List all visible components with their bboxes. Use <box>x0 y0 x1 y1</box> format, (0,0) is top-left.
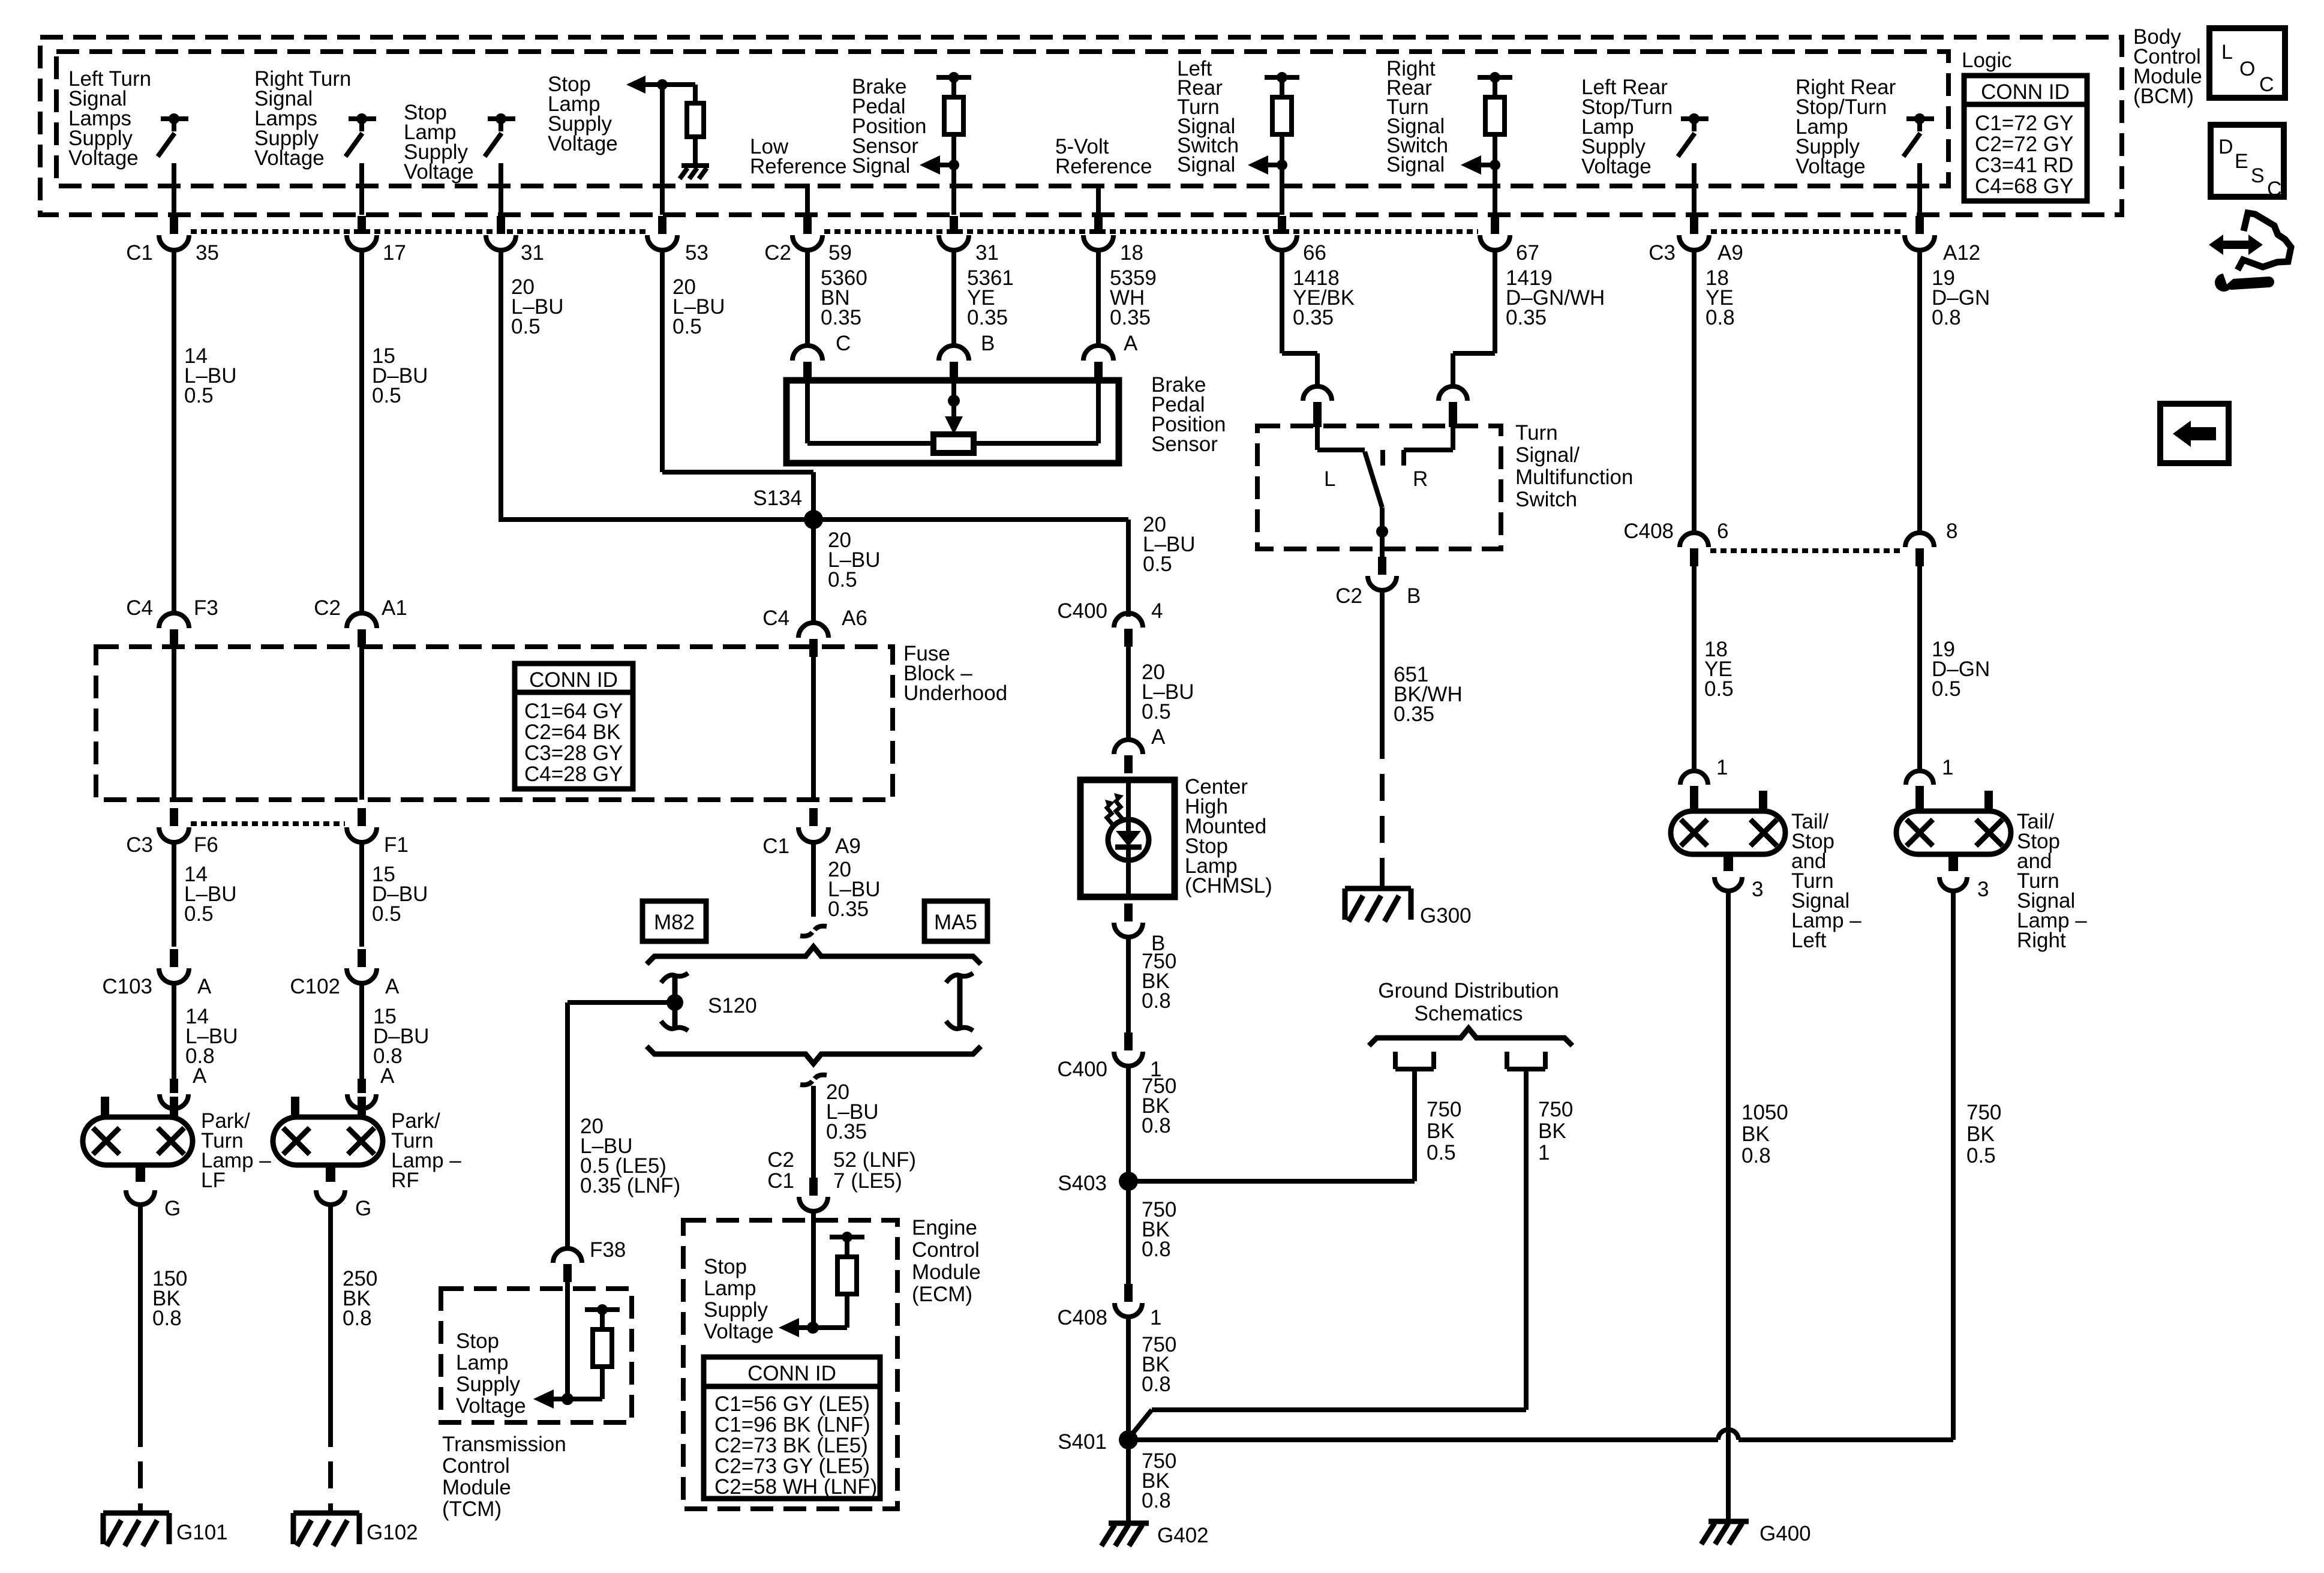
wire pin 31 <box>951 165 956 215</box>
stub to ground distribution (left) <box>1395 1052 1434 1069</box>
label A12 <box>1943 241 1980 265</box>
BCM CONN ID table <box>1964 76 2087 201</box>
svg-text:(ECM): (ECM) <box>912 1283 972 1306</box>
svg-text:31: 31 <box>975 241 999 265</box>
wire low reference <box>805 184 810 215</box>
label 3 <box>1977 878 1989 901</box>
switch (BCM left rear stop/turn driver) <box>1678 113 1709 157</box>
svg-text:1: 1 <box>1150 1306 1161 1329</box>
svg-text:G: G <box>164 1197 181 1220</box>
svg-text:3: 3 <box>1977 878 1989 901</box>
label 8 <box>1946 520 1957 543</box>
connector BCM C3 pin A12 <box>1905 216 1935 250</box>
svg-text:Switch: Switch <box>1515 488 1577 511</box>
svg-text:0.35: 0.35 <box>1506 306 1547 329</box>
connector BCM C1 pin 17 <box>347 216 377 250</box>
label 17 <box>383 241 406 265</box>
wire pin 67 <box>1493 165 1497 215</box>
wire <box>499 163 503 215</box>
wire into ECM <box>811 1209 816 1328</box>
label 1 <box>1942 756 1953 779</box>
svg-text:RF: RF <box>391 1169 419 1192</box>
wire <box>359 163 364 215</box>
svg-text:S120: S120 <box>708 994 757 1017</box>
svg-text:7 (LE5): 7 (LE5) <box>833 1169 902 1193</box>
svg-text:750: 750 <box>1538 1098 1573 1121</box>
svg-text:L: L <box>1324 467 1335 491</box>
splice S134 <box>753 487 823 529</box>
svg-text:A9: A9 <box>835 834 861 858</box>
svg-text:0.5: 0.5 <box>1966 1144 1996 1167</box>
svg-text:0.5: 0.5 <box>1143 553 1172 576</box>
svg-text:Module: Module <box>912 1260 981 1284</box>
svg-text:G: G <box>355 1197 371 1220</box>
wire 20 L-BU 0.5 down to S134 level <box>499 248 503 522</box>
wire 5360 BN 0.35 <box>805 248 810 347</box>
label C408 / 1 <box>1057 1306 1161 1329</box>
svg-text:Voltage: Voltage <box>548 132 618 155</box>
wire 5359 WH 0.35 <box>1096 248 1101 347</box>
svg-text:Left: Left <box>1791 929 1827 952</box>
svg-text:Logic: Logic <box>1962 49 2012 72</box>
label 18 <box>1120 241 1143 265</box>
svg-text:0.35: 0.35 <box>828 897 869 921</box>
label Left Turn Signal Lamps Supply Voltage <box>68 67 151 170</box>
connector tail lamp right pin 3 <box>1939 877 1967 891</box>
connector fuse block C2 pin A1 <box>347 613 377 647</box>
label B <box>1151 932 1165 955</box>
svg-text:0.8: 0.8 <box>152 1307 182 1330</box>
svg-text:A: A <box>193 1064 207 1088</box>
svg-text:C103: C103 <box>102 975 152 998</box>
connector C408 pin 1 <box>1115 1284 1142 1317</box>
svg-text:G102: G102 <box>367 1521 418 1544</box>
svg-text:C3=28 GY: C3=28 GY <box>524 742 623 765</box>
label C4 / F3 <box>126 596 218 620</box>
wire S134 down <box>811 520 816 624</box>
svg-text:C: C <box>2259 73 2274 96</box>
label 15 D-BU 0.5 <box>372 863 428 926</box>
signal arrow (TCM stop lamp supply voltage) <box>533 1389 574 1409</box>
label C1 / A9 <box>762 834 861 858</box>
svg-text:S134: S134 <box>753 487 802 510</box>
connector tail lamp left pin 3 <box>1715 877 1742 891</box>
wire resistor to node <box>951 134 956 165</box>
svg-text:0.5: 0.5 <box>1932 677 1961 701</box>
svg-text:0.35: 0.35 <box>1394 703 1434 726</box>
label Park/Turn Lamp - LF <box>201 1109 271 1192</box>
label C400 / 4 <box>1057 599 1163 623</box>
svg-text:0.5: 0.5 <box>828 568 857 592</box>
switch internal: R contact <box>1404 426 1453 466</box>
wire 5361 YE 0.35 <box>951 248 956 347</box>
LOC legend box <box>2209 28 2285 98</box>
svg-text:C2=58 WH (LNF): C2=58 WH (LNF) <box>714 1475 877 1499</box>
svg-text:0.8: 0.8 <box>1142 989 1171 1013</box>
svg-text:S: S <box>2251 164 2265 187</box>
connector BCM C2 pin 66 <box>1267 216 1297 250</box>
ground G402 <box>1101 1523 1209 1547</box>
svg-text:8: 8 <box>1946 520 1957 543</box>
label 250 BK 0.8 <box>343 1267 377 1330</box>
svg-text:D: D <box>2218 136 2233 158</box>
svg-text:B: B <box>981 332 995 355</box>
wire (inside fuse block) <box>172 646 176 800</box>
wire 14 L-BU 0.5 <box>172 840 176 947</box>
wire into sensor <box>951 379 956 396</box>
wire 15 D-BU 0.5 <box>359 248 364 614</box>
connector C408 pin 6 <box>1680 533 1709 566</box>
wire 18 YE 0.5 <box>1692 565 1697 771</box>
svg-text:Voltage: Voltage <box>1795 155 1866 178</box>
svg-text:A6: A6 <box>842 607 867 630</box>
label 1050 BK 0.8 <box>1742 1101 1788 1167</box>
svg-text:C2: C2 <box>314 596 341 620</box>
wire S134 to C400 branch <box>813 520 1128 617</box>
svg-text:F1: F1 <box>384 833 409 857</box>
svg-text:Ground Distribution: Ground Distribution <box>1378 979 1559 1002</box>
label Stop Lamp Supply Voltage (stop output) <box>404 101 474 184</box>
label 20 L-BU 0.35 <box>828 858 881 921</box>
wire 15 D-BU 0.5 <box>359 840 364 947</box>
svg-text:Stop: Stop <box>456 1329 499 1353</box>
connector fuse block C3 pin F6 <box>159 808 189 842</box>
switch (BCM right rear stop/turn driver) <box>1903 113 1934 157</box>
svg-text:Control: Control <box>912 1238 980 1262</box>
connector lamp RF pin G <box>316 1190 345 1205</box>
svg-text:C102: C102 <box>290 975 340 998</box>
splice S401 <box>1058 1430 1138 1454</box>
svg-text:F3: F3 <box>194 596 218 620</box>
svg-text:Voltage: Voltage <box>254 146 325 170</box>
label Park/Turn Lamp - RF <box>391 1109 461 1192</box>
svg-text:(TCM): (TCM) <box>442 1497 502 1521</box>
wire S401 to right tail lamp ground (with hop) <box>1128 890 1953 1440</box>
wire pin 66 <box>1280 165 1284 215</box>
label Stop Lamp Supply Voltage (ECM) <box>704 1255 774 1343</box>
label 1 <box>1716 756 1728 779</box>
wire pin 53 <box>660 85 665 215</box>
connector fuse block C1 pin A9 <box>798 808 828 842</box>
connector BCM C2 pin 31 <box>939 216 969 250</box>
svg-text:66: 66 <box>1303 241 1326 265</box>
svg-text:C2: C2 <box>767 1148 794 1172</box>
label Body Control Module (BCM) <box>2133 25 2202 108</box>
label 15 D-BU 0.8 A <box>373 1005 429 1088</box>
connector C2 dotted row <box>824 229 1478 234</box>
fuse block connector dotted row <box>191 821 345 826</box>
wire 14 L-BU 0.5 <box>172 248 176 614</box>
svg-text:Multifunction: Multifunction <box>1515 466 1633 489</box>
label 19 D-GN 0.8 <box>1932 266 1990 329</box>
wire 150 BK 0.8 <box>138 1203 143 1447</box>
label 20 L-BU 0.35 <box>826 1080 879 1143</box>
Engine Control Module dashed box <box>683 1220 897 1509</box>
svg-text:S403: S403 <box>1058 1172 1107 1195</box>
svg-text:52 (LNF): 52 (LNF) <box>833 1148 916 1172</box>
lamp Park/Turn Lamp - LF <box>83 1097 193 1182</box>
connector park/turn lamp RF pin A <box>347 1079 376 1109</box>
Turn Signal/Multifunction Switch dashed box <box>1257 426 1501 549</box>
svg-text:0.35: 0.35 <box>1293 306 1334 329</box>
wire into sensor <box>1096 379 1101 443</box>
label C2 / B <box>1335 584 1421 608</box>
svg-text:0.8: 0.8 <box>1742 1144 1771 1167</box>
svg-text:0.35 (LNF): 0.35 (LNF) <box>580 1174 680 1197</box>
connector BCM C2 pin 18 <box>1083 216 1113 250</box>
svg-text:C4: C4 <box>126 596 153 620</box>
connector BCM C2 pin 67 <box>1480 216 1510 250</box>
connector C400 pin 4 <box>1114 613 1143 647</box>
svg-text:G300: G300 <box>1420 904 1472 927</box>
svg-text:1: 1 <box>1538 1141 1550 1164</box>
connector C103 pin A <box>159 949 189 983</box>
wire 750 BK 0.8 <box>1126 936 1131 1038</box>
svg-text:(CHMSL): (CHMSL) <box>1185 874 1272 897</box>
svg-text:C3: C3 <box>1649 241 1676 265</box>
svg-text:0.5: 0.5 <box>511 315 541 338</box>
connector C3 dotted row <box>1711 229 1903 234</box>
label F38 <box>590 1238 626 1262</box>
label 67 <box>1516 241 1539 265</box>
svg-text:17: 17 <box>383 241 406 265</box>
svg-text:0.8: 0.8 <box>1142 1489 1171 1512</box>
ground G400 <box>1701 1521 1811 1545</box>
label A <box>1151 725 1166 749</box>
label Engine Control Module (ECM) <box>912 1216 981 1306</box>
connector tail lamp left pin 1 <box>1680 771 1708 804</box>
BCM inner dashed box (logic) <box>56 52 1948 186</box>
brace (ground distribution) <box>1369 1028 1572 1046</box>
label C103 / A <box>102 975 212 998</box>
ground G300 <box>1345 888 1472 927</box>
svg-text:E: E <box>2235 150 2248 173</box>
callout box M82 <box>642 901 706 941</box>
connector lamp LF pin G <box>126 1190 155 1205</box>
splice S403 <box>1058 1172 1138 1195</box>
svg-text:Engine: Engine <box>912 1216 977 1239</box>
wire 750 BK 1 (S401 to ground distribution) <box>1128 1069 1526 1439</box>
connector TCM pin F38 <box>553 1248 582 1282</box>
connector fuse block pin F1 <box>347 808 377 842</box>
wire 750 BK 0.5 <box>1951 890 1956 1440</box>
svg-text:0.8: 0.8 <box>1142 1114 1171 1137</box>
wire break (bottom of S120 group) <box>800 1075 827 1085</box>
wire <box>805 384 810 443</box>
connector CHMSL pin B <box>1114 903 1143 937</box>
wire 1418 YE/BK 0.35 <box>1282 248 1317 389</box>
connector BCM C2 pin 59 <box>792 216 822 250</box>
svg-text:A1: A1 <box>382 596 407 620</box>
svg-text:Voltage: Voltage <box>404 160 474 184</box>
signal arrow (left rear turn signal switch signal) <box>1248 155 1287 175</box>
Fuse Block - Underhood dashed box <box>96 647 893 800</box>
svg-text:Transmission: Transmission <box>442 1433 566 1456</box>
wire resistor to node <box>813 1294 847 1328</box>
connector C400 pin 1 <box>1114 1032 1143 1066</box>
svg-text:A12: A12 <box>1943 241 1980 265</box>
svg-text:Sensor: Sensor <box>1151 433 1218 456</box>
resistor (TCM internal) <box>585 1304 620 1367</box>
wire 750 BK 0.8 <box>1126 1316 1131 1440</box>
wire resistor to node <box>1280 134 1284 165</box>
label Brake Pedal Position Sensor <box>1151 373 1226 456</box>
connector park/turn lamp LF pin A <box>160 1079 188 1109</box>
svg-text:G400: G400 <box>1759 1522 1811 1545</box>
svg-text:1: 1 <box>1942 756 1953 779</box>
svg-text:Schematics: Schematics <box>1415 1002 1523 1025</box>
label 750 BK 0.8 <box>1142 1198 1176 1261</box>
label Left Rear Stop/Turn Lamp Supply Voltage <box>1581 76 1673 178</box>
label 750 BK 0.8 <box>1142 1333 1176 1396</box>
label 750 BK 1 <box>1538 1098 1573 1164</box>
svg-text:0.5: 0.5 <box>1704 677 1734 701</box>
switch (BCM stop lamp output driver) <box>485 113 515 157</box>
svg-text:0.5: 0.5 <box>1427 1141 1456 1164</box>
connector fuse block C4 pin A6 <box>798 623 828 657</box>
svg-text:Lamp: Lamp <box>456 1351 509 1374</box>
label 651 BK/WH 0.35 <box>1394 663 1463 726</box>
wire (dashed to ground) <box>1380 774 1385 888</box>
svg-text:3: 3 <box>1752 878 1763 901</box>
svg-text:BK: BK <box>1742 1122 1770 1146</box>
wire 20 L-BU 0.35 <box>811 840 816 917</box>
wire to C2/B <box>1380 532 1385 563</box>
resistor (BCM internal pull-down) <box>687 103 704 137</box>
label 1419 D-GN/WH 0.35 <box>1506 266 1605 329</box>
lamp Tail/Stop and Turn Signal Lamp - Left <box>1671 791 1785 871</box>
svg-text:C1: C1 <box>126 241 153 265</box>
label Brake Pedal Position Sensor Signal <box>852 75 927 178</box>
label Right Rear Stop/Turn Lamp Supply Voltage <box>1795 76 1896 178</box>
label 5360 BN 0.35 C <box>821 266 867 355</box>
wire into sensor <box>805 379 810 443</box>
svg-text:C408: C408 <box>1057 1306 1107 1329</box>
wire 20 L-BU 0.5 <box>662 248 813 520</box>
resistor (BCM internal, BPPS signal) <box>936 72 971 134</box>
label 750 BK 0.5 <box>1427 1098 1461 1164</box>
svg-text:L: L <box>2221 41 2233 64</box>
sensor internal: wiper contact <box>933 434 974 453</box>
svg-text:B: B <box>1407 584 1421 608</box>
label C2 / 59 <box>764 241 852 265</box>
svg-text:6: 6 <box>1717 520 1728 543</box>
connector turn signal switch (right input) <box>1439 386 1467 427</box>
label 18 YE 0.8 <box>1706 266 1735 329</box>
svg-text:C1=56 GY (LE5): C1=56 GY (LE5) <box>714 1392 870 1416</box>
label Fuse Block - Underhood <box>903 642 1007 705</box>
svg-text:67: 67 <box>1516 241 1539 265</box>
svg-text:C400: C400 <box>1057 599 1107 623</box>
svg-text:Signal: Signal <box>1386 153 1445 176</box>
label 20 L-BU 0.5 (LE5) 0.35 (LNF) <box>580 1115 680 1197</box>
label Tail/Stop and Turn Signal Lamp - Left <box>1791 810 1861 952</box>
svg-text:C2=73 GY (LE5): C2=73 GY (LE5) <box>714 1455 870 1478</box>
svg-text:18: 18 <box>1120 241 1143 265</box>
switch (BCM right turn output driver) <box>346 113 376 157</box>
wire (inside fuse block) <box>359 646 364 800</box>
connector ECM C2/C1 <box>799 1178 828 1211</box>
label 14 L-BU 0.5 <box>184 863 237 926</box>
svg-text:C3=41 RD: C3=41 RD <box>1975 154 2073 177</box>
label 53 <box>685 241 708 265</box>
connector C408 dotted row <box>1710 548 1903 553</box>
label Low Reference <box>750 135 846 178</box>
label 15 D-BU 0.5 <box>372 344 428 407</box>
svg-text:CONN ID: CONN ID <box>1981 80 2070 104</box>
ECM CONN ID table <box>704 1357 880 1499</box>
label Stop Lamp Supply Voltage (TCM) <box>456 1329 526 1418</box>
connector CHMSL pin A <box>1114 740 1143 773</box>
label 5359 WH 0.35 A <box>1110 266 1157 355</box>
svg-text:0.8: 0.8 <box>343 1307 372 1330</box>
label C1 / 35 <box>126 241 219 265</box>
sensor internal: wiper arrow <box>945 380 963 434</box>
svg-text:0.5: 0.5 <box>184 902 214 926</box>
label C3 / F6 <box>126 833 218 857</box>
svg-text:Underhood: Underhood <box>903 682 1007 705</box>
svg-text:C4: C4 <box>762 607 789 630</box>
svg-text:1: 1 <box>1716 756 1728 779</box>
connector BCM C3 pin A9 <box>1679 216 1709 250</box>
wire <box>1917 163 1922 215</box>
label 150 BK 0.8 <box>152 1267 187 1330</box>
svg-text:F38: F38 <box>590 1238 626 1262</box>
svg-text:R: R <box>1413 467 1428 491</box>
svg-text:Voltage: Voltage <box>456 1394 526 1418</box>
brace (bottom of splice pack) <box>647 1046 981 1064</box>
wire 250 BK 0.8 <box>328 1203 333 1447</box>
svg-text:750: 750 <box>1427 1098 1461 1121</box>
wire 20 L-BU 0.35 to ECM <box>811 1086 816 1184</box>
wire resistor to ground <box>693 138 698 166</box>
wire 19 D-GN 0.8 <box>1917 248 1922 534</box>
svg-text:A: A <box>1124 332 1138 355</box>
label G <box>355 1197 371 1220</box>
wire 20 L-BU 0.5 <box>1126 646 1131 741</box>
svg-text:31: 31 <box>521 241 544 265</box>
svg-text:G402: G402 <box>1157 1524 1209 1547</box>
svg-text:35: 35 <box>196 241 219 265</box>
svg-text:LF: LF <box>201 1169 226 1192</box>
stub to ground distribution (right) <box>1507 1052 1545 1069</box>
svg-text:Module: Module <box>442 1476 511 1499</box>
label C3 / A9 <box>1649 241 1743 265</box>
label C4 / A6 <box>762 607 867 630</box>
svg-text:0.35: 0.35 <box>826 1120 867 1143</box>
brace (top of splice pack) <box>647 947 981 964</box>
label 750 BK 0.5 <box>1966 1101 2001 1167</box>
svg-text:G101: G101 <box>176 1521 228 1544</box>
svg-text:53: 53 <box>685 241 708 265</box>
svg-text:BK: BK <box>1427 1119 1455 1143</box>
ground (BCM internal) <box>680 166 709 179</box>
wire 750 BK 0.8 <box>1126 1181 1131 1284</box>
wire 19 D-GN 0.5 <box>1917 565 1922 771</box>
label C408 / 6 <box>1623 520 1728 543</box>
label 5-Volt Reference <box>1055 135 1152 178</box>
svg-text:C3: C3 <box>126 833 153 857</box>
label Stop Lamp Supply Voltage (signal into BCM) <box>548 73 618 155</box>
svg-text:0.5: 0.5 <box>372 384 401 407</box>
wire break (top of S120 group) <box>800 926 827 936</box>
svg-text:0.5: 0.5 <box>184 384 214 407</box>
svg-text:C: C <box>2267 178 2282 200</box>
svg-text:C2: C2 <box>764 241 791 265</box>
svg-text:MA5: MA5 <box>934 911 977 934</box>
svg-text:0.8: 0.8 <box>1142 1238 1171 1261</box>
wire resistor to node <box>1493 134 1497 165</box>
